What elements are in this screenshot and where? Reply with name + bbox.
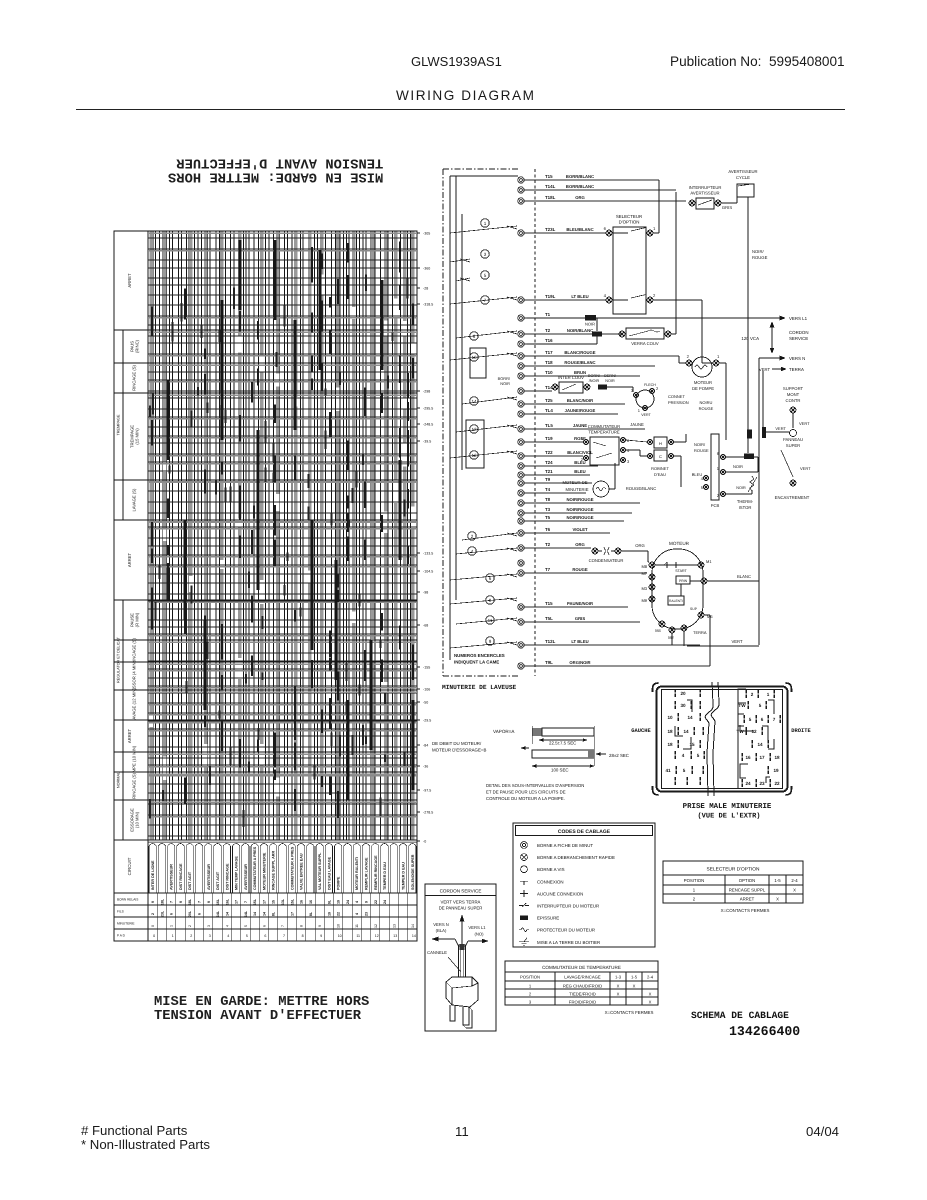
svg-text:NOIR/: NOIR/	[752, 249, 764, 254]
svg-text:PCB: PCB	[711, 503, 720, 508]
svg-text:24: 24	[745, 781, 751, 786]
svg-text:NOIR/ROUGE: NOIR/ROUGE	[567, 507, 594, 512]
svg-text:DE DEBIT DU MOTEUR/: DE DEBIT DU MOTEUR/	[432, 741, 482, 746]
svg-text:14: 14	[225, 912, 229, 916]
svg-text:VERT: VERT	[731, 639, 743, 644]
svg-text:AVERTISSEUR: AVERTISSEUR	[170, 864, 174, 890]
svg-text:D'EAU: D'EAU	[654, 472, 666, 477]
svg-text:134266400: 134266400	[729, 1024, 800, 1039]
svg-text:5: 5	[749, 717, 752, 722]
svg-text:X=CONTACTS FERMES: X=CONTACTS FERMES	[721, 908, 770, 913]
svg-text:ROUGE/BLANC: ROUGE/BLANC	[626, 486, 656, 491]
svg-text:CONNET: CONNET	[668, 394, 685, 399]
svg-text:24: 24	[346, 900, 350, 904]
svg-text:22: 22	[774, 781, 780, 786]
svg-text:10: 10	[337, 924, 341, 928]
svg-text:RENCAGE SUPPL: RENCAGE SUPPL	[729, 888, 766, 893]
svg-text:RINCAGE (S): RINCAGE (S)	[132, 772, 137, 798]
svg-text:ARRET: ARRET	[127, 273, 132, 288]
svg-text:T4: T4	[545, 487, 551, 492]
svg-text:2: 2	[656, 386, 659, 391]
svg-text:1: 1	[172, 934, 174, 938]
svg-text:BLANC/NOIR: BLANC/NOIR	[567, 398, 593, 403]
svg-text:5: 5	[244, 925, 248, 927]
svg-text:VERT VERS TERRA: VERT VERS TERRA	[441, 900, 481, 905]
svg-text:1-5: 1-5	[631, 974, 638, 979]
svg-text:7: 7	[198, 901, 202, 903]
svg-text:AVERTISSEUR: AVERTISSEUR	[728, 169, 757, 174]
svg-text:T1: T1	[545, 312, 551, 317]
svg-text:ENCASTREMENT: ENCASTREMENT	[775, 495, 810, 500]
svg-text:JAUNE: JAUNE	[573, 423, 587, 428]
svg-text:MOTEUR: MOTEUR	[694, 380, 712, 385]
svg-text:7: 7	[281, 925, 285, 927]
svg-text:M8: M8	[641, 564, 647, 569]
svg-text:MINUTERIE: MINUTERIE	[565, 487, 588, 492]
svg-text:5: 5	[246, 934, 248, 938]
svg-text:RALENTI: RALENTI	[669, 599, 683, 603]
svg-text:INTERRUPTEUR: INTERRUPTEUR	[689, 185, 722, 190]
svg-text:NORMAL: NORMAL	[117, 772, 121, 788]
svg-text:19: 19	[773, 768, 779, 773]
svg-text:M2: M2	[668, 635, 674, 640]
svg-text:9: 9	[489, 639, 492, 644]
svg-text:16: 16	[745, 755, 751, 760]
svg-text:P A D: P A D	[117, 934, 126, 938]
svg-text:3: 3	[484, 252, 487, 257]
svg-text:TL5: TL5	[545, 423, 553, 428]
svg-text:CONDENSATEUR: CONDENSATEUR	[589, 558, 624, 563]
svg-text:T18L: T18L	[545, 195, 556, 200]
svg-text:9L: 9L	[327, 899, 331, 904]
svg-text:ORG: ORG	[635, 543, 645, 548]
svg-text:6: 6	[761, 717, 764, 722]
svg-text:BLANC: BLANC	[737, 574, 751, 579]
svg-text:TW: TW	[738, 703, 746, 708]
svg-text:-29.5: -29.5	[423, 719, 431, 723]
svg-text:13: 13	[471, 427, 477, 432]
svg-text:1-3: 1-3	[615, 974, 622, 979]
svg-text:ROUGE: ROUGE	[694, 448, 709, 453]
svg-text:2: 2	[188, 925, 192, 927]
svg-text:0: 0	[153, 934, 155, 938]
svg-text:DE POMPE: DE POMPE	[692, 386, 714, 391]
svg-text:THERM-: THERM-	[737, 499, 754, 504]
svg-text:5: 5	[683, 768, 686, 773]
svg-text:5: 5	[759, 703, 762, 708]
svg-text:DETAIL DES SOUS-INTERVALLES D': DETAIL DES SOUS-INTERVALLES D'ASPERSION	[486, 783, 584, 788]
svg-text:10: 10	[338, 934, 342, 938]
svg-text:2: 2	[151, 913, 155, 915]
svg-text:NOIR: NOIR	[733, 464, 743, 469]
svg-text:T14L: T14L	[545, 184, 556, 189]
svg-text:-305: -305	[423, 232, 430, 236]
svg-text:9: 9	[207, 901, 211, 903]
svg-text:JAUNE/ROUGE: JAUNE/ROUGE	[565, 408, 596, 413]
svg-text:NOIR: NOIR	[585, 322, 595, 327]
svg-text:T23L: T23L	[545, 227, 556, 232]
svg-text:1: 1	[529, 983, 532, 988]
svg-text:-39.5: -39.5	[423, 440, 431, 444]
svg-text:PRISE MALE MINUTERIE: PRISE MALE MINUTERIE	[683, 803, 772, 811]
svg-text:23: 23	[759, 781, 765, 786]
svg-text:17: 17	[759, 755, 765, 760]
svg-text:VERS N: VERS N	[433, 922, 449, 927]
svg-text:REMPLIR RINCAGE: REMPLIR RINCAGE	[374, 855, 378, 890]
svg-text:VAL MOTEUR SUPPL: VAL MOTEUR SUPPL	[318, 852, 322, 890]
svg-text:M9: M9	[641, 598, 647, 603]
svg-text:(RINC): (RINC)	[134, 339, 139, 353]
svg-text:T10: T10	[545, 370, 553, 375]
svg-text:(R MIN): (R MIN)	[134, 612, 139, 627]
svg-text:BORNE A FICHE DE MINUT: BORNE A FICHE DE MINUT	[537, 843, 593, 848]
svg-text:10: 10	[667, 715, 673, 720]
svg-text:PRIN: PRIN	[679, 579, 688, 583]
svg-text:RINCAGE (S): RINCAGE (S)	[132, 364, 137, 390]
svg-text:BORN RELAIS: BORN RELAIS	[117, 898, 138, 902]
svg-text:-0: -0	[423, 840, 426, 844]
svg-text:OPTION: OPTION	[739, 878, 755, 883]
svg-text:-104.5: -104.5	[423, 570, 433, 574]
svg-text:POSITION: POSITION	[520, 974, 540, 979]
svg-text:6: 6	[264, 934, 266, 938]
svg-text:VAPOR=A: VAPOR=A	[493, 729, 515, 734]
svg-text:FILS: FILS	[117, 910, 124, 914]
svg-text:1: 1	[717, 354, 720, 359]
svg-text:6: 6	[262, 925, 266, 927]
svg-text:-295.5: -295.5	[423, 407, 433, 411]
svg-text:M7: M7	[641, 571, 647, 576]
svg-text:1: 1	[767, 692, 770, 697]
svg-text:11: 11	[356, 934, 360, 938]
svg-text:BLANC/VIOL: BLANC/VIOL	[567, 450, 593, 455]
svg-text:14: 14	[262, 912, 266, 916]
svg-text:19: 19	[327, 912, 331, 916]
svg-text:9: 9	[318, 925, 322, 927]
svg-text:24: 24	[383, 900, 387, 904]
svg-text:5: 5	[484, 273, 487, 278]
svg-text:7: 7	[170, 901, 174, 903]
svg-text:T7: T7	[545, 567, 551, 572]
svg-text:MOTEUR D'ESSORAGE=B: MOTEUR D'ESSORAGE=B	[432, 748, 486, 753]
svg-text:MOTEUR DE: MOTEUR DE	[562, 480, 587, 485]
svg-text:2: 2	[529, 991, 532, 996]
svg-text:2-4: 2-4	[647, 974, 654, 979]
svg-text:15: 15	[272, 900, 276, 904]
svg-text:ARRET: ARRET	[740, 897, 755, 902]
svg-text:TERRA: TERRA	[789, 367, 804, 372]
svg-text:M4: M4	[655, 628, 661, 633]
svg-text:GAUCHE: GAUCHE	[631, 728, 651, 734]
svg-text:BLEU: BLEU	[574, 469, 585, 474]
svg-text:2: 2	[687, 354, 690, 359]
svg-text:RINCAGE SUPPL ARR: RINCAGE SUPPL ARR	[272, 851, 276, 890]
svg-text:12: 12	[751, 729, 757, 734]
svg-text:14: 14	[687, 715, 693, 720]
svg-text:AVERTISSEUR: AVERTISSEUR	[207, 864, 211, 890]
svg-text:GRIS: GRIS	[575, 616, 585, 621]
svg-text:NOIR/: NOIR/	[694, 442, 706, 447]
svg-text:LAVAGE/RINCAGE: LAVAGE/RINCAGE	[564, 974, 601, 979]
svg-text:T2: T2	[545, 542, 551, 547]
svg-text:REGULATOR ET DELICAT: REGULATOR ET DELICAT	[117, 636, 121, 683]
svg-text:M3: M3	[641, 586, 647, 591]
svg-text:EPISSURE: EPISSURE	[537, 916, 559, 921]
svg-text:T19: T19	[545, 436, 553, 441]
svg-text:41: 41	[665, 768, 671, 773]
svg-text:1: 1	[693, 888, 696, 893]
svg-text:TERRA: TERRA	[693, 630, 707, 635]
svg-text:1: 1	[170, 925, 174, 927]
svg-text:-106: -106	[423, 688, 430, 692]
svg-text:2: 2	[471, 534, 474, 539]
svg-text:X: X	[617, 983, 620, 988]
svg-text:T9: T9	[545, 477, 551, 482]
svg-text:DIST AGIT: DIST AGIT	[188, 871, 192, 890]
svg-text:D'OPTION: D'OPTION	[619, 220, 640, 225]
svg-text:-84: -84	[423, 744, 428, 748]
svg-text:PAUNE/NOIR: PAUNE/NOIR	[567, 601, 593, 606]
svg-text:T12L: T12L	[545, 639, 556, 644]
svg-text:FLECH: FLECH	[644, 383, 656, 387]
svg-text:(BLA): (BLA)	[436, 928, 447, 933]
svg-text:DIST EAU LAVAGE: DIST EAU LAVAGE	[327, 856, 331, 890]
svg-text:3: 3	[529, 999, 532, 1004]
svg-text:RINCAGE (S): RINCAGE (S)	[132, 637, 137, 663]
svg-text:ORG: ORG	[575, 542, 585, 547]
svg-text:-68: -68	[423, 624, 428, 628]
svg-text:CORDON SERVICE: CORDON SERVICE	[440, 889, 482, 894]
svg-text:X: X	[617, 991, 620, 996]
svg-text:T22: T22	[545, 450, 553, 455]
svg-text:1: 1	[484, 221, 487, 226]
svg-text:4: 4	[355, 913, 359, 915]
svg-text:INTER COUV: INTER COUV	[558, 375, 584, 380]
svg-text:14L: 14L	[216, 910, 220, 917]
svg-text:7: 7	[283, 934, 285, 938]
svg-text:ROUGE: ROUGE	[699, 406, 714, 411]
svg-text:17: 17	[235, 900, 239, 904]
svg-text:SOLENOIDE SUPER: SOLENOIDE SUPER	[411, 854, 415, 890]
svg-text:(VUE DE L'EXTR): (VUE DE L'EXTR)	[697, 812, 760, 821]
svg-text:2: 2	[190, 934, 192, 938]
svg-text:TEMPERATURE: TEMPERATURE	[588, 430, 620, 435]
svg-text:-98: -98	[423, 591, 428, 595]
svg-text:T17: T17	[545, 350, 553, 355]
svg-text:6: 6	[170, 913, 174, 915]
svg-text:VERT: VERT	[800, 466, 811, 471]
svg-text:8: 8	[302, 934, 304, 938]
svg-text:20: 20	[680, 691, 686, 696]
svg-text:CYCLE: CYCLE	[736, 175, 750, 180]
svg-text:ISTOR: ISTOR	[739, 505, 752, 510]
svg-text:NOIR: NOIR	[500, 381, 510, 386]
svg-text:16L: 16L	[216, 898, 220, 905]
svg-text:AVERTISSEUR: AVERTISSEUR	[690, 191, 719, 196]
svg-text:BORR/BLANC: BORR/BLANC	[566, 184, 594, 189]
svg-text:SELECTEUR D'OPTION: SELECTEUR D'OPTION	[707, 867, 760, 873]
svg-text:NOIR/ROUGE: NOIR/ROUGE	[567, 497, 594, 502]
svg-text:T5: T5	[545, 515, 551, 520]
svg-text:-248.5: -248.5	[423, 423, 433, 427]
svg-text:11: 11	[355, 924, 359, 928]
svg-text:VIOLET: VIOLET	[572, 527, 588, 532]
svg-text:T16: T16	[545, 338, 553, 343]
svg-text:-50: -50	[423, 701, 428, 705]
svg-text:23L: 23L	[160, 910, 164, 917]
svg-text:13: 13	[393, 934, 397, 938]
svg-text:9: 9	[179, 901, 183, 903]
svg-text:DE PANNEAU SUPER: DE PANNEAU SUPER	[439, 906, 483, 911]
svg-text:COMMUTATEUR: COMMUTATEUR	[588, 424, 620, 429]
svg-text:120 VCA: 120 VCA	[741, 336, 759, 341]
svg-text:4: 4	[355, 901, 359, 903]
svg-text:NOIR/BLANC: NOIR/BLANC	[567, 328, 593, 333]
svg-text:22: 22	[337, 912, 341, 916]
svg-text:LT BLEU: LT BLEU	[571, 294, 588, 299]
svg-text:14L: 14L	[244, 910, 248, 917]
svg-text:23: 23	[365, 912, 369, 916]
svg-text:SERVICE: SERVICE	[789, 336, 808, 341]
svg-text:22: 22	[374, 900, 378, 904]
svg-text:X: X	[793, 888, 796, 893]
svg-text:INDIQUENT LA CAME: INDIQUENT LA CAME	[454, 660, 499, 665]
svg-text:BORN/: BORN/	[588, 374, 601, 378]
svg-text:MINUTERIE: MINUTERIE	[117, 922, 135, 926]
svg-text:ARRET: ARRET	[127, 728, 132, 743]
svg-text:18: 18	[667, 742, 673, 747]
svg-text:MISE A LA TERRE DU BOITIER: MISE A LA TERRE DU BOITIER	[537, 940, 600, 945]
svg-text:T5L: T5L	[545, 616, 553, 621]
svg-text:REMPLIR LAVAGE: REMPLIR LAVAGE	[365, 857, 369, 890]
svg-text:MIN TEMP LAVAGE: MIN TEMP LAVAGE	[235, 856, 239, 890]
svg-text:DIST AGIT: DIST AGIT	[216, 871, 220, 890]
svg-text:CONTROLE DU MOTEUR A LA POMPE.: CONTROLE DU MOTEUR A LA POMPE.	[486, 796, 565, 801]
svg-text:CORDON: CORDON	[789, 330, 809, 335]
svg-text:MINUTERIE DE LAVEUSE: MINUTERIE DE LAVEUSE	[442, 684, 517, 691]
svg-text:100 SEC: 100 SEC	[551, 768, 569, 773]
svg-text:PRESSION: PRESSION	[668, 400, 689, 405]
svg-text:8: 8	[300, 925, 304, 927]
svg-text:START: START	[675, 569, 687, 573]
svg-text:(10 MIN): (10 MIN)	[134, 811, 139, 828]
svg-text:ROUGE/BLANC: ROUGE/BLANC	[564, 360, 595, 365]
svg-text:T2: T2	[545, 328, 551, 333]
svg-text:BORNE A DEBRANCHEMENT RAPIDE: BORNE A DEBRANCHEMENT RAPIDE	[537, 855, 615, 860]
svg-text:17: 17	[262, 900, 266, 904]
svg-text:/NOIR: /NOIR	[589, 379, 600, 383]
svg-text:28±2 SEC: 28±2 SEC	[609, 753, 629, 758]
svg-text:BLANC/ROUGE: BLANC/ROUGE	[564, 350, 595, 355]
svg-text:GRIS: GRIS	[722, 205, 732, 210]
svg-text:NOIR: NOIR	[605, 379, 615, 383]
svg-text:ROUGE: ROUGE	[752, 255, 768, 260]
svg-text:X=CONTACTS FERMES: X=CONTACTS FERMES	[605, 1010, 654, 1015]
svg-text:NUMEROS ENCERCLES: NUMEROS ENCERCLES	[454, 653, 505, 658]
svg-text:VERT: VERT	[775, 426, 786, 431]
svg-text:ORG/NOIR: ORG/NOIR	[569, 660, 590, 665]
svg-text:X: X	[649, 999, 652, 1004]
svg-text:(NO): (NO)	[474, 932, 484, 937]
svg-text:X: X	[633, 983, 636, 988]
svg-text:2: 2	[653, 293, 656, 298]
svg-text:SUPER: SUPER	[786, 443, 800, 448]
svg-text:16: 16	[309, 900, 313, 904]
svg-text:15L: 15L	[253, 898, 257, 905]
svg-text:4: 4	[227, 934, 229, 938]
svg-text:VERS L1: VERS L1	[789, 316, 808, 321]
svg-text:H: H	[659, 441, 662, 446]
svg-text:14: 14	[253, 912, 257, 916]
svg-text:0: 0	[151, 925, 155, 927]
svg-text:CIRCUIT: CIRCUIT	[127, 857, 132, 875]
svg-text:COMMUTATEUR DE TEMPERATURE: COMMUTATEUR DE TEMPERATURE	[542, 965, 621, 970]
svg-text:15L: 15L	[290, 898, 294, 905]
svg-text:CONNEXION: CONNEXION	[537, 879, 564, 884]
svg-text:T25: T25	[545, 398, 553, 403]
svg-text:TL4: TL4	[545, 408, 553, 413]
svg-text:4: 4	[604, 293, 607, 298]
svg-text:DROITE: DROITE	[791, 728, 811, 734]
svg-text:AVERTISSEUR: AVERTISSEUR	[244, 864, 248, 890]
svg-text:T8: T8	[545, 497, 551, 502]
svg-text:T19L: T19L	[545, 294, 556, 299]
svg-text:12: 12	[374, 924, 378, 928]
svg-text:3: 3	[627, 459, 630, 464]
svg-text:X: X	[649, 991, 652, 996]
svg-text:DIST RINCAGE: DIST RINCAGE	[179, 863, 183, 890]
svg-text:18L: 18L	[160, 898, 164, 905]
svg-text:VERRA COUV: VERRA COUV	[631, 341, 659, 346]
svg-text:-28: -28	[423, 287, 428, 291]
svg-text:19: 19	[337, 900, 341, 904]
svg-text:PANNEAU: PANNEAU	[783, 437, 803, 442]
svg-text:T15: T15	[545, 601, 553, 606]
svg-text:6: 6	[198, 913, 202, 915]
svg-text:2: 2	[751, 692, 754, 697]
svg-text:POMPE: POMPE	[337, 876, 341, 890]
svg-text:ARRET: ARRET	[127, 552, 132, 567]
svg-text:5: 5	[697, 753, 700, 758]
svg-text:-278.5: -278.5	[423, 811, 433, 815]
svg-text:2-4: 2-4	[791, 878, 798, 883]
svg-text:C: C	[659, 454, 662, 459]
svg-text:LAVAGE (S): LAVAGE (S)	[132, 488, 137, 511]
svg-text:4: 4	[471, 549, 474, 554]
svg-text:PROTECTEUR DU MOTEUR: PROTECTEUR DU MOTEUR	[537, 928, 595, 933]
svg-text:ESSOR (4 MIN): ESSOR (4 MIN)	[132, 661, 137, 691]
svg-text:COMMUTATEUR A PRES: COMMUTATEUR A PRES	[253, 846, 257, 890]
svg-text:NOIRU: NOIRU	[700, 400, 713, 405]
svg-text:T15: T15	[545, 174, 553, 179]
svg-text:VERS L1: VERS L1	[468, 925, 486, 930]
svg-text:T3: T3	[545, 507, 551, 512]
svg-text:FROID/FROID: FROID/FROID	[569, 999, 596, 1004]
svg-text:LT BLEU: LT BLEU	[571, 639, 588, 644]
svg-text:15: 15	[689, 742, 695, 747]
svg-text:BORR/BLANC: BORR/BLANC	[566, 174, 594, 179]
svg-text:8L: 8L	[272, 911, 276, 916]
svg-text:BLEU/BLANC: BLEU/BLANC	[566, 227, 593, 232]
svg-text:CODES DE CABLAGE: CODES DE CABLAGE	[558, 829, 611, 835]
svg-text:-318.5: -318.5	[423, 303, 433, 307]
svg-text:17: 17	[290, 912, 294, 916]
svg-text:9: 9	[320, 934, 322, 938]
svg-text:14: 14	[412, 934, 416, 938]
svg-text:TREMPAGE: TREMPAGE	[117, 414, 121, 435]
svg-text:INTERRUPTEUR DU MOTEUR: INTERRUPTEUR DU MOTEUR	[537, 904, 599, 909]
svg-text:MOTEUR RALENTI: MOTEUR RALENTI	[355, 857, 359, 890]
